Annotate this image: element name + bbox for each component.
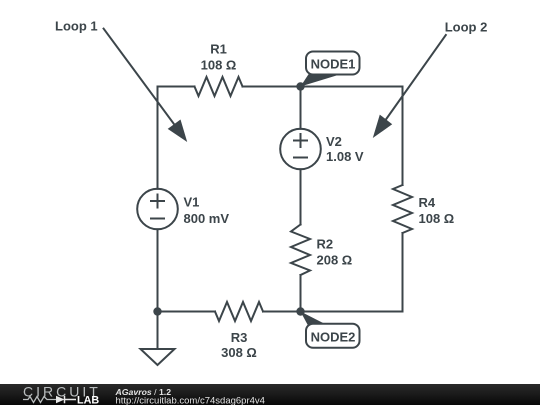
label R2 value: [317, 237, 353, 268]
label R1 value: [201, 42, 237, 73]
voltage source V2: [280, 129, 321, 170]
junction dot ground node: [153, 307, 161, 315]
svg-text:208 Ω: 208 Ω: [317, 253, 353, 268]
logo symbol resistor: [23, 397, 56, 403]
node junction dot NODE2: [296, 307, 304, 315]
arrowhead loop1: [168, 120, 188, 143]
svg-text:NODE2: NODE2: [311, 329, 356, 344]
ground: [141, 349, 175, 365]
label R4 value: [419, 195, 455, 226]
wire top-middle segment: [243, 86, 301, 88]
label R3 value: [221, 330, 257, 360]
resistor R2: [291, 225, 310, 276]
node flag NODE1: [301, 52, 360, 87]
wire loop1 arrow line: [103, 28, 178, 130]
svg-text:108 Ω: 108 Ω: [201, 58, 237, 73]
wire left vertical lower: [157, 229, 159, 311]
wire middle vertical mid: [300, 169, 302, 224]
svg-text:http://circuitlab.com/c74sdag6: http://circuitlab.com/c74sdag6pr4v4: [116, 396, 265, 405]
svg-text:108 Ω: 108 Ω: [419, 211, 455, 226]
svg-text:V1: V1: [184, 195, 200, 210]
wire middle vertical upper: [300, 87, 302, 129]
resistor R1: [195, 77, 243, 96]
svg-text:LAB: LAB: [77, 394, 99, 405]
svg-text:Loop 1: Loop 1: [55, 19, 98, 34]
node flag NODE2: [301, 312, 360, 348]
svg-text:R4: R4: [419, 195, 436, 210]
svg-text:308 Ω: 308 Ω: [221, 345, 257, 360]
svg-text:R2: R2: [317, 237, 334, 252]
voltage source V1: [137, 189, 178, 230]
wire bottom-left segment: [158, 311, 216, 313]
node junction dot NODE1: [296, 82, 304, 90]
wire bottom-middle segment: [263, 311, 301, 313]
wire top-left segment: [158, 86, 195, 88]
svg-text:NODE1: NODE1: [311, 56, 356, 71]
svg-text:R3: R3: [231, 330, 248, 345]
wire ground stub: [157, 312, 159, 350]
arrowhead loop2: [373, 115, 392, 138]
wire middle vertical lower: [300, 275, 302, 312]
wire bottom-right segment: [301, 311, 403, 313]
label V1 value: [184, 195, 230, 227]
logo symbol diode: [56, 396, 65, 404]
svg-text:1.08 V: 1.08 V: [326, 149, 364, 164]
svg-text:Loop 2: Loop 2: [445, 20, 488, 35]
svg-text:V2: V2: [326, 134, 342, 149]
resistor R3: [215, 302, 263, 321]
wire top-right segment: [301, 86, 403, 88]
resistor R4: [393, 185, 412, 233]
wire loop2 arrow line: [382, 34, 446, 125]
label V2 value: [326, 134, 364, 164]
svg-text:R1: R1: [210, 42, 227, 57]
wire left vertical upper: [157, 87, 159, 189]
svg-text:800 mV: 800 mV: [184, 211, 230, 226]
wire right vertical upper: [402, 87, 404, 186]
wire right vertical lower: [402, 233, 404, 312]
